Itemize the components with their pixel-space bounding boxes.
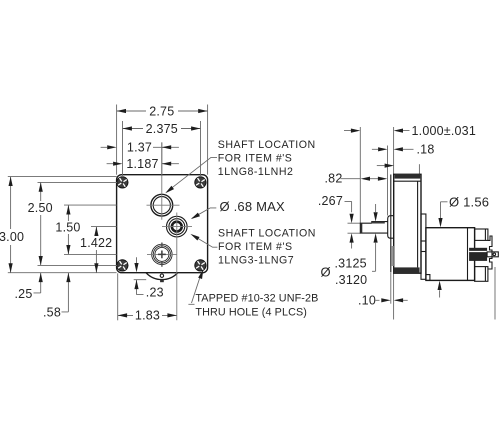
bottom hole centerlines: [147, 253, 177, 255]
extension line body face: [393, 127, 395, 174]
extension line bottom screws: [38, 264, 118, 266]
svg-text:TAPPED #10-32 UNF-2B: TAPPED #10-32 UNF-2B: [195, 293, 318, 305]
extension line body left: [116, 105, 118, 175]
plate gray strip: [391, 246, 394, 266]
extension line body top: [8, 176, 117, 178]
note tapped holes: [188, 269, 318, 319]
terminal block: [469, 248, 487, 261]
svg-text:.23: .23: [146, 285, 164, 299]
svg-text:2.50: 2.50: [28, 201, 53, 215]
dimension 1.83: [118, 273, 177, 322]
dimension 3.00: [0, 177, 24, 273]
svg-text:1.422: 1.422: [80, 236, 112, 250]
extension line bottom shaft: [64, 253, 117, 255]
motor body: [426, 228, 475, 281]
top shaft centerlines: [147, 142, 180, 219]
output shaft hole (middle): [167, 216, 188, 237]
leader arrow at body face: [377, 164, 394, 168]
dimension 1.000±.031: [344, 124, 476, 138]
extension line body bottom: [8, 272, 117, 274]
extension line terminal right lower: [494, 267, 496, 320]
svg-text:.3125: .3125: [335, 257, 367, 271]
dimension .18: [372, 143, 435, 157]
svg-text:.267: .267: [318, 194, 343, 208]
dimension 1.37: [101, 141, 179, 155]
svg-text:FOR ITEM #'S: FOR ITEM #'S: [218, 241, 293, 253]
svg-text:1.50: 1.50: [55, 221, 80, 235]
spade terminal: [487, 252, 498, 257]
svg-text:1.37: 1.37: [127, 141, 152, 155]
svg-text:.82: .82: [325, 172, 343, 186]
svg-text:2.75: 2.75: [149, 104, 174, 118]
svg-text:.58: .58: [43, 306, 61, 320]
extension line boss face: [387, 146, 389, 216]
screw bottom-left: [117, 260, 128, 271]
arc small hole: [160, 274, 163, 277]
extension line short right: [418, 164, 420, 174]
output shaft centerlines: [162, 213, 192, 321]
svg-text:SHAFT LOCATION: SHAFT LOCATION: [218, 139, 316, 151]
svg-text:1LNG8-1LNH2: 1LNG8-1LNH2: [218, 166, 294, 178]
screw bottom-right: [195, 260, 206, 271]
dimension dia 1.56: [438, 195, 490, 298]
svg-text:.10: .10: [358, 294, 376, 308]
motor adapter: [421, 214, 426, 279]
svg-text:Ø 1.56: Ø 1.56: [449, 195, 489, 210]
dimension 2.375: [123, 122, 201, 136]
gearbox body front outline: [117, 175, 208, 273]
svg-text:1.83: 1.83: [135, 309, 160, 323]
dimension 1.422: [80, 227, 112, 273]
dimension 1.50: [55, 205, 80, 254]
extension line shaft tip: [359, 127, 361, 223]
screw top-right: [195, 177, 206, 188]
dimension dia .3125/.3120: [321, 204, 378, 287]
extension line plate right lower: [393, 273, 395, 319]
gearbox side body: [394, 174, 421, 273]
dimension .10: [358, 294, 408, 308]
extension line shaft center: [161, 142, 163, 176]
extension line screw left: [122, 121, 124, 177]
motor end bottom block: [475, 267, 488, 282]
dimension 2.75: [117, 104, 208, 118]
output shaft side: [360, 222, 387, 234]
svg-text:.18: .18: [417, 143, 435, 157]
screw top-left: [117, 177, 128, 188]
svg-text:.25: .25: [15, 287, 33, 301]
dimension 2.50: [28, 182, 53, 265]
svg-text:FOR ITEM #'S: FOR ITEM #'S: [218, 152, 293, 164]
extension line top shaft: [64, 204, 117, 206]
extension line screw right: [200, 121, 202, 177]
svg-text:.3120: .3120: [335, 273, 367, 287]
extension line plate left lower: [390, 273, 392, 304]
svg-text:1.000±.031: 1.000±.031: [412, 124, 476, 138]
svg-text:Ø .68 MAX: Ø .68 MAX: [220, 199, 286, 214]
note dia .68 MAX: [190, 199, 285, 221]
svg-text:1LNG3-1LNG7: 1LNG3-1LNG7: [218, 254, 294, 266]
extension line output shaft: [91, 226, 117, 228]
extension line body right: [207, 105, 209, 175]
svg-text:1.187: 1.187: [126, 157, 158, 171]
extension line top screws: [38, 181, 118, 183]
bottom arc bulge: [146, 273, 178, 280]
dimension .58: [43, 273, 70, 320]
arc bottom tab: [160, 280, 164, 283]
svg-text:3.00: 3.00: [0, 230, 24, 244]
svg-text:2.375: 2.375: [146, 122, 178, 136]
dimension .82: [325, 172, 388, 186]
dimension .267: [318, 194, 361, 249]
dimension .23: [134, 257, 164, 299]
note shaft location 1LNG3-1LNG7: [189, 227, 316, 266]
motor end top block: [475, 229, 488, 240]
shaft boss: [388, 216, 394, 239]
note shaft location 1LNG8-1LNH2: [164, 139, 316, 195]
motor pinion hole (bottom): [152, 244, 172, 264]
top shaft hole: [151, 194, 173, 216]
svg-text:Ø: Ø: [321, 265, 331, 280]
dimension .25: [15, 273, 43, 301]
svg-text:THRU HOLE (4 PLCS): THRU HOLE (4 PLCS): [195, 307, 307, 319]
dimension 1.187: [107, 157, 179, 171]
gearbox front plate: [390, 175, 392, 273]
svg-text:SHAFT LOCATION: SHAFT LOCATION: [218, 227, 316, 239]
motor end cap profile: [488, 236, 492, 269]
